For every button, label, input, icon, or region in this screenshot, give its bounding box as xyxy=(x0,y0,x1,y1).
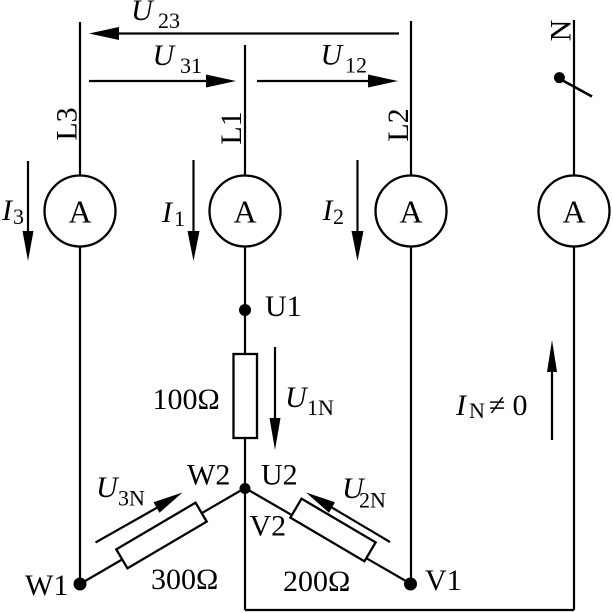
svg-text:A: A xyxy=(68,194,91,230)
svg-text:0: 0 xyxy=(513,389,528,422)
svg-text:U: U xyxy=(96,471,120,504)
svg-text:L3: L3 xyxy=(51,107,84,140)
svg-text:U: U xyxy=(131,0,155,27)
svg-text:L2: L2 xyxy=(382,108,415,141)
svg-text:100Ω: 100Ω xyxy=(153,383,220,416)
svg-text:31: 31 xyxy=(180,53,202,78)
svg-text:U: U xyxy=(153,39,177,72)
svg-text:V2: V2 xyxy=(250,510,287,543)
svg-text:1: 1 xyxy=(174,206,185,231)
svg-text:A: A xyxy=(233,194,256,230)
svg-text:U1: U1 xyxy=(265,290,302,323)
svg-text:N: N xyxy=(545,20,578,42)
svg-text:3N: 3N xyxy=(118,486,145,511)
svg-text:3: 3 xyxy=(13,204,24,229)
svg-text:≠: ≠ xyxy=(489,389,505,422)
svg-text:L1: L1 xyxy=(215,111,248,144)
svg-text:V1: V1 xyxy=(425,564,462,597)
svg-text:W1: W1 xyxy=(25,569,68,602)
svg-text:23: 23 xyxy=(158,8,180,33)
svg-text:300Ω: 300Ω xyxy=(151,563,218,596)
svg-text:1N: 1N xyxy=(307,395,334,420)
svg-text:U: U xyxy=(285,381,309,414)
svg-text:W2: W2 xyxy=(187,459,230,492)
svg-text:U2: U2 xyxy=(261,459,298,492)
svg-text:200Ω: 200Ω xyxy=(283,565,350,598)
svg-text:2: 2 xyxy=(333,204,344,229)
svg-text:A: A xyxy=(399,194,422,230)
svg-text:A: A xyxy=(562,194,585,230)
svg-text:12: 12 xyxy=(345,53,367,78)
svg-text:U: U xyxy=(321,39,345,72)
svg-text:N: N xyxy=(469,398,485,423)
svg-text:2N: 2N xyxy=(359,488,386,513)
